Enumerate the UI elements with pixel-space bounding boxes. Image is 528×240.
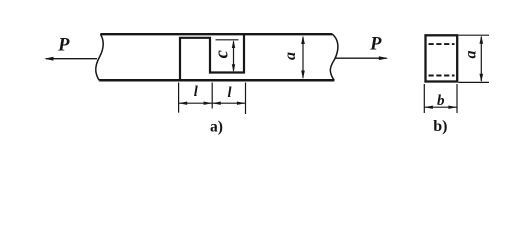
svg-text:b: b <box>437 93 445 109</box>
wire: left P arrow shaft <box>46 58 97 60</box>
svg-text:a: a <box>462 51 479 59</box>
arrowhead l left <box>179 102 188 105</box>
dimension a (part b) extension top <box>459 34 490 36</box>
hidden dashed line lower <box>429 75 455 77</box>
arrowhead b left <box>424 106 433 109</box>
svg-text:c: c <box>213 50 233 58</box>
arrowhead right P <box>379 56 388 60</box>
dimension a (part b) extension bottom <box>459 81 490 83</box>
arrowhead b right <box>448 106 457 109</box>
wire: right P arrow shaft <box>336 57 387 59</box>
bar bottom edge <box>99 79 334 82</box>
bar top edge <box>100 33 332 35</box>
dimension a (part a) line <box>302 37 304 78</box>
l extension line left <box>178 83 180 113</box>
svg-text:a): a) <box>210 119 223 136</box>
hidden dashed line upper <box>429 43 455 45</box>
arrowhead l middle-left <box>204 102 213 105</box>
svg-text:l: l <box>227 85 231 101</box>
section rectangle <box>426 35 458 81</box>
arrowhead a bottom (part b) <box>480 74 484 82</box>
l extension line right <box>245 83 247 115</box>
arrowhead left P <box>44 57 53 61</box>
arrowhead l middle-right <box>212 102 221 105</box>
dimension b extension right <box>456 84 458 113</box>
arrowhead a bottom (part a) <box>301 71 305 80</box>
arrowhead l right <box>237 102 246 105</box>
arrowhead c bottom <box>232 64 235 72</box>
svg-text:P: P <box>57 36 70 56</box>
arrowhead c top <box>232 40 235 48</box>
svg-text:P: P <box>369 34 382 54</box>
dimension b line <box>424 106 457 108</box>
dimension c line <box>233 42 235 71</box>
dimension c extension line <box>216 39 239 41</box>
dimension b extension left <box>423 84 425 113</box>
svg-text:l: l <box>194 84 198 100</box>
l extension line middle <box>211 83 213 109</box>
left break line <box>96 34 103 80</box>
arrowhead a top (part b) <box>480 35 484 43</box>
dimension l line <box>179 102 246 104</box>
dimension a (part b) line <box>480 37 482 81</box>
right break line <box>330 34 337 80</box>
arrowhead a top (part a) <box>301 35 305 44</box>
svg-text:a: a <box>282 52 299 60</box>
svg-text:b): b) <box>433 118 447 135</box>
stepped joint cut <box>180 34 244 80</box>
